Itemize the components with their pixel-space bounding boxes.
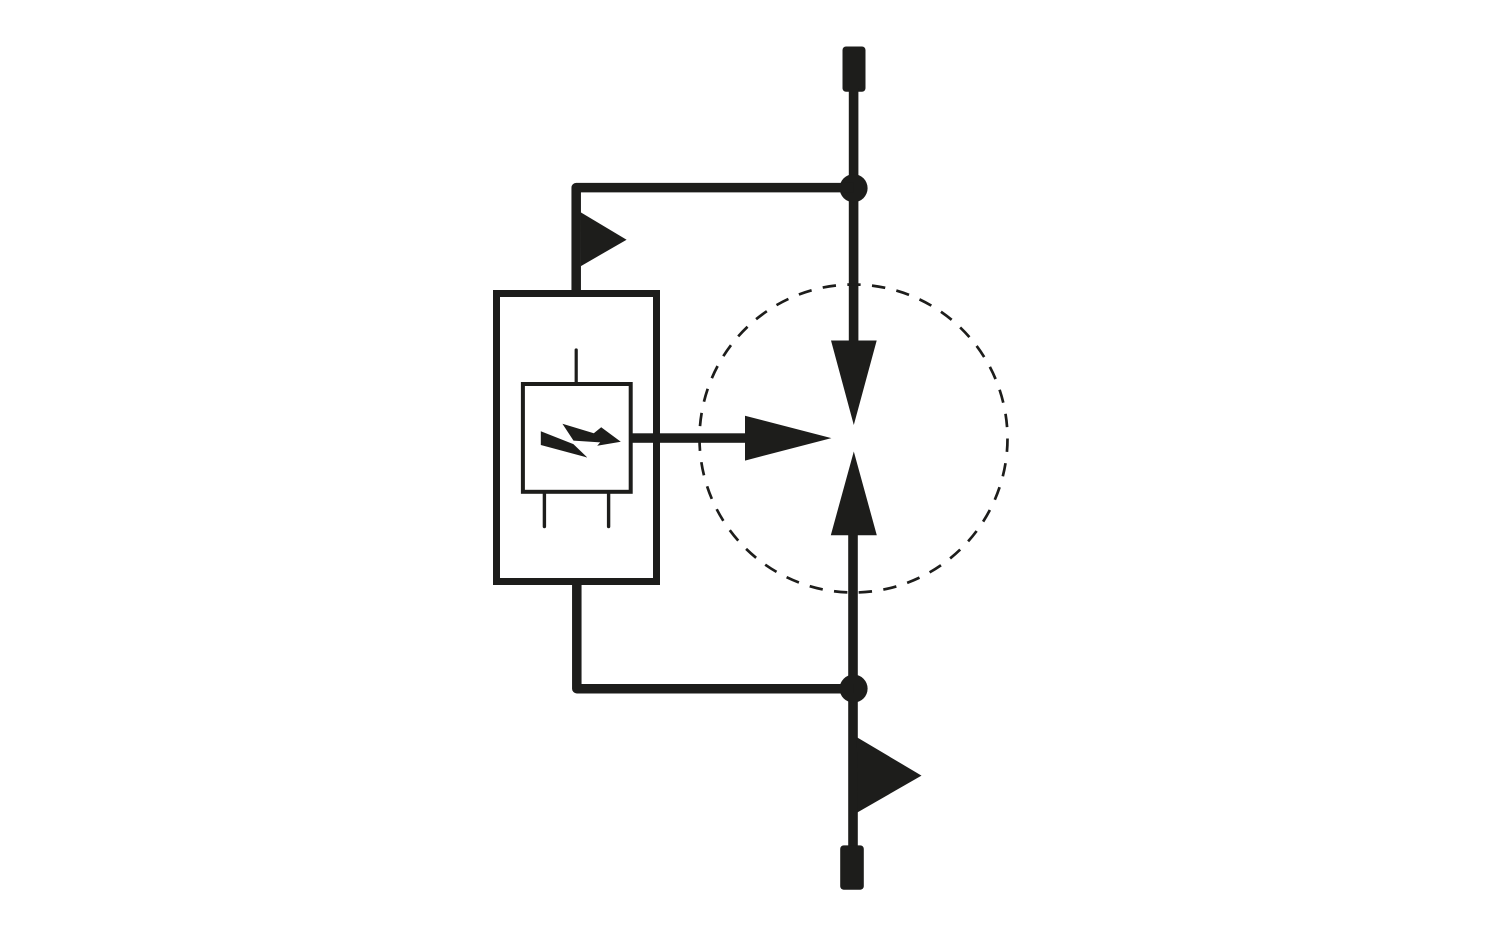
- spark gap upper electrode (arrow pointing down): [831, 341, 877, 426]
- pin bottom-right of trigger device: [607, 493, 610, 527]
- lightning-bolt trigger arrow (tail band): [541, 431, 588, 457]
- wire: lower vertical (lower electrode to bottom terminal): [848, 530, 858, 847]
- direction arrow on bottom branch (points right, away from junction): [857, 737, 922, 812]
- pin top of trigger device: [575, 350, 578, 383]
- wire: trigger output (inner box to ignition arrowhead): [630, 433, 748, 443]
- pin bottom-left of trigger device: [543, 493, 546, 527]
- lightning-bolt trigger arrow (upper band with arrowhead): [562, 424, 620, 446]
- trigger device symbol box (inner square): [523, 384, 631, 492]
- terminal bottom (ground-side connection stub): [840, 845, 864, 889]
- terminal top (line-side connection stub): [843, 47, 866, 92]
- trigger unit box (outer rectangle): [497, 294, 657, 582]
- spark gap enclosure (dashed circle): [700, 285, 1008, 593]
- spark gap lower electrode (arrow pointing up): [831, 452, 877, 536]
- direction arrow on top branch (points right, into junction): [581, 212, 627, 266]
- junction dot top: [840, 174, 868, 202]
- arrowhead: trigger ignition arrow pointing at gap: [745, 416, 831, 461]
- wire: bottom horizontal + left vertical rise to trigger box (corner): [577, 584, 854, 689]
- junction dot bottom: [840, 675, 868, 703]
- wire: top horizontal + left vertical drop to trigger box (corner): [576, 188, 853, 291]
- wire: top vertical (terminal to spark-gap upper electrode): [849, 88, 859, 345]
